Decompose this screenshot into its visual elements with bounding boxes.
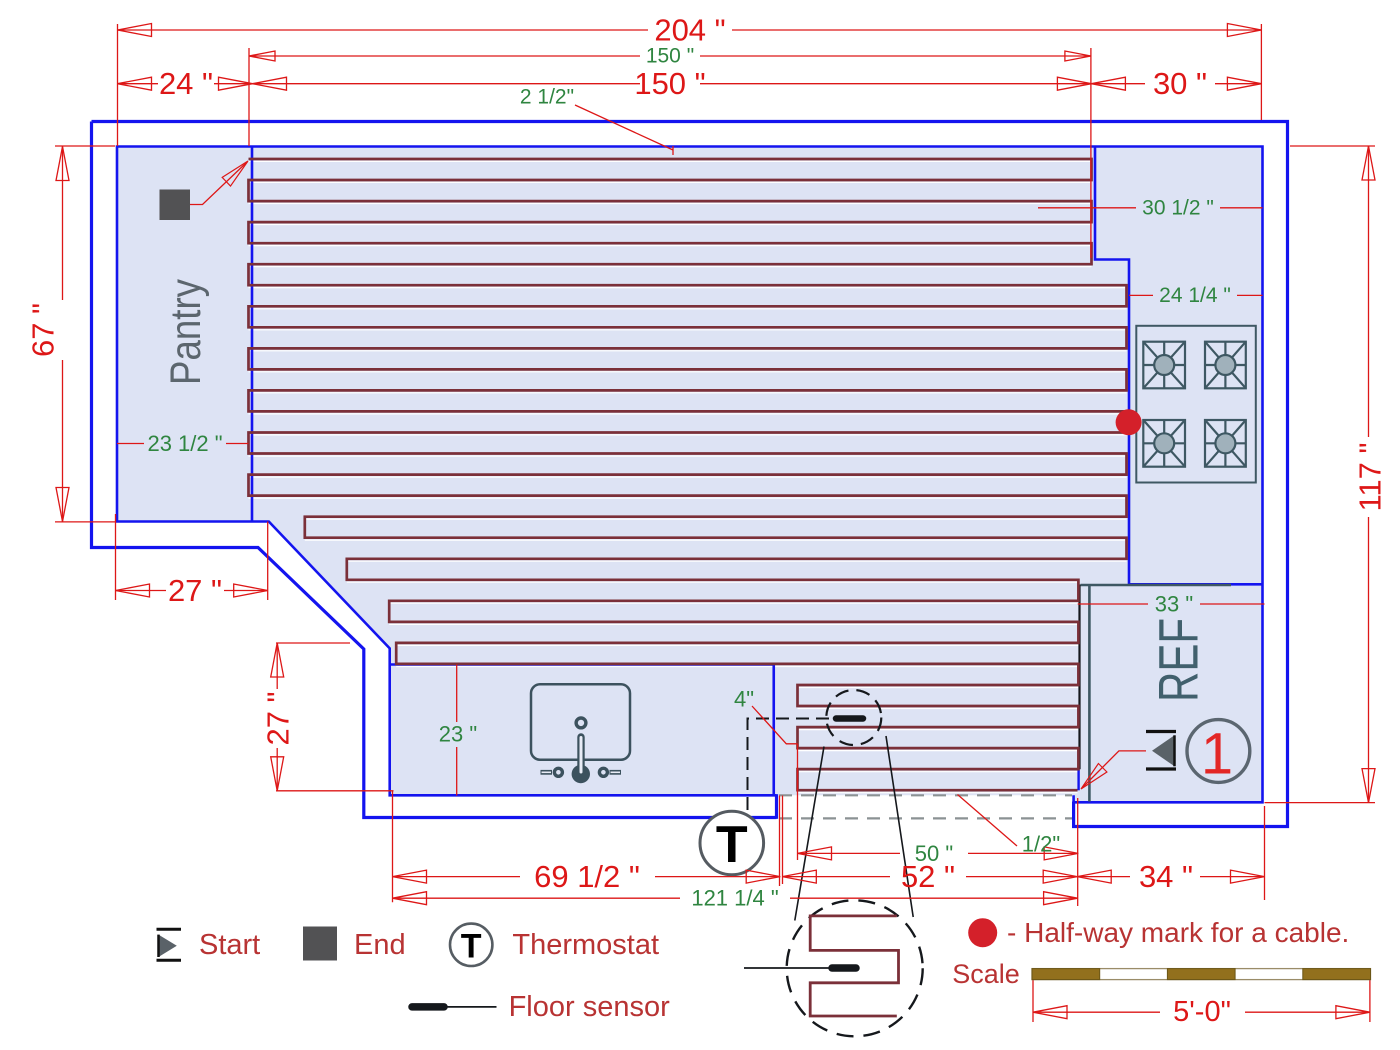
- svg-text:24 1/4 ": 24 1/4 ": [1159, 284, 1231, 307]
- 23 1/2 dim: [117, 443, 249, 445]
- legend half-way dot: [968, 918, 997, 947]
- 33 dim: [1078, 603, 1265, 605]
- dimension texts green: [147, 45, 1230, 911]
- heating cable serpentine: [249, 159, 1127, 790]
- thermostat circle: [700, 811, 764, 875]
- svg-text:End: End: [354, 929, 406, 961]
- 4 inch leader: [752, 706, 798, 744]
- svg-text:T: T: [716, 816, 748, 874]
- start marker at REF: [1146, 730, 1176, 733]
- legend floor sensor: [412, 1003, 444, 1011]
- magnified sensor: [744, 967, 830, 969]
- magnified cable: [810, 916, 898, 1016]
- svg-text:Start: Start: [199, 929, 260, 961]
- stove: [1136, 326, 1256, 483]
- svg-text:117 ": 117 ": [1353, 442, 1388, 511]
- svg-text:121 1/4 ": 121 1/4 ": [691, 886, 778, 911]
- burner BL: [1143, 420, 1185, 467]
- svg-text:30 ": 30 ": [1153, 66, 1207, 101]
- outer wall outline left/bottom: [92, 122, 777, 818]
- 67 dim: [62, 147, 64, 522]
- inner room boundary (heated area outline): [117, 147, 1263, 803]
- 1/2 leader: [958, 795, 1018, 847]
- svg-text:REF: REF: [1147, 618, 1210, 702]
- 5'-0 dim: [1033, 1011, 1370, 1013]
- svg-text:T: T: [461, 928, 482, 966]
- 150 red / 24 / 30 dims: [253, 83, 1092, 85]
- opening dashed lines: [779, 794, 1072, 796]
- wall end cap at opening: [775, 794, 778, 819]
- end leader: [190, 163, 246, 205]
- black boundary right of lower serpentine: [1078, 585, 1080, 770]
- End marker square in pantry: [160, 190, 191, 221]
- legend start symbol: [157, 928, 182, 931]
- svg-text:204 ": 204 ": [654, 13, 725, 48]
- 69 1/2 dim: [393, 876, 781, 878]
- svg-text:69 1/2 ": 69 1/2 ": [534, 859, 640, 894]
- svg-text:34 ": 34 ": [1139, 859, 1193, 894]
- svg-text:33 ": 33 ": [1155, 592, 1193, 617]
- svg-text:23 ": 23 ": [439, 722, 477, 747]
- half-way red dot: [1116, 409, 1142, 435]
- svg-text:4": 4": [734, 687, 754, 712]
- 2 1/2 leader: [575, 105, 673, 155]
- svg-text:1/2": 1/2": [1022, 832, 1060, 857]
- 117 dim: [1368, 146, 1370, 803]
- svg-text:Scale: Scale: [952, 959, 1020, 989]
- circled 1: [1187, 720, 1250, 783]
- floor sensor tip: [836, 715, 863, 722]
- 27 horizontal dim: [116, 590, 268, 592]
- 24 1/4 dim: [1129, 294, 1263, 296]
- 23 green dim: [456, 665, 458, 796]
- burner TR: [1205, 342, 1246, 389]
- stove strip divider: [1095, 147, 1263, 585]
- svg-text:- Half-way mark for a cable.: - Half-way mark for a cable.: [1007, 917, 1349, 948]
- magnifier connectors: [795, 736, 913, 921]
- svg-text:2 1/2": 2 1/2": [520, 86, 574, 109]
- sink: [531, 684, 630, 783]
- legend thermostat: [450, 924, 492, 966]
- svg-text:5'-0": 5'-0": [1173, 996, 1231, 1028]
- svg-text:1: 1: [1201, 722, 1233, 787]
- big detail circle: [787, 900, 923, 1036]
- svg-text:23 1/2 ": 23 1/2 ": [147, 431, 222, 456]
- 204 dim: [118, 29, 1262, 31]
- 30 1/2 dim: [1038, 207, 1263, 209]
- 27 vertical dim: [276, 643, 278, 791]
- svg-text:Floor sensor: Floor sensor: [509, 991, 671, 1023]
- pantry divider: [251, 147, 254, 522]
- legend end symbol: [303, 927, 337, 961]
- burner BR: [1205, 420, 1246, 467]
- svg-text:150 ": 150 ": [634, 66, 705, 101]
- svg-text:27 ": 27 ": [168, 573, 222, 608]
- 52 dim: [782, 876, 1077, 878]
- 121 1/4 dim: [393, 897, 1078, 899]
- outer wall outline right/top: [92, 122, 1288, 827]
- svg-text:30 1/2 ": 30 1/2 ": [1142, 196, 1214, 219]
- REF niche outline: [1081, 585, 1232, 802]
- room interior fill: [117, 147, 1263, 803]
- svg-text:150 ": 150 ": [646, 45, 694, 68]
- burner TL: [1143, 342, 1185, 389]
- 150 green dim: [249, 55, 1091, 57]
- blue boundary bit bottom right of serpentine: [1077, 769, 1079, 790]
- svg-text:50 ": 50 ": [915, 841, 953, 866]
- 34 dim: [1077, 876, 1264, 878]
- magnifier small circle: [826, 690, 881, 745]
- start leader: [1083, 751, 1147, 788]
- svg-text:24 ": 24 ": [159, 66, 213, 101]
- svg-text:Thermostat: Thermostat: [512, 929, 659, 961]
- svg-text:Pantry: Pantry: [162, 279, 210, 385]
- sink zone divider: [390, 665, 774, 796]
- sensor conduit dashed: [748, 719, 832, 811]
- svg-text:67 ": 67 ": [26, 303, 61, 357]
- white underside of cable rows: [249, 161, 1127, 792]
- svg-text:27 ": 27 ": [261, 691, 296, 745]
- 50 green dim: [798, 852, 1079, 854]
